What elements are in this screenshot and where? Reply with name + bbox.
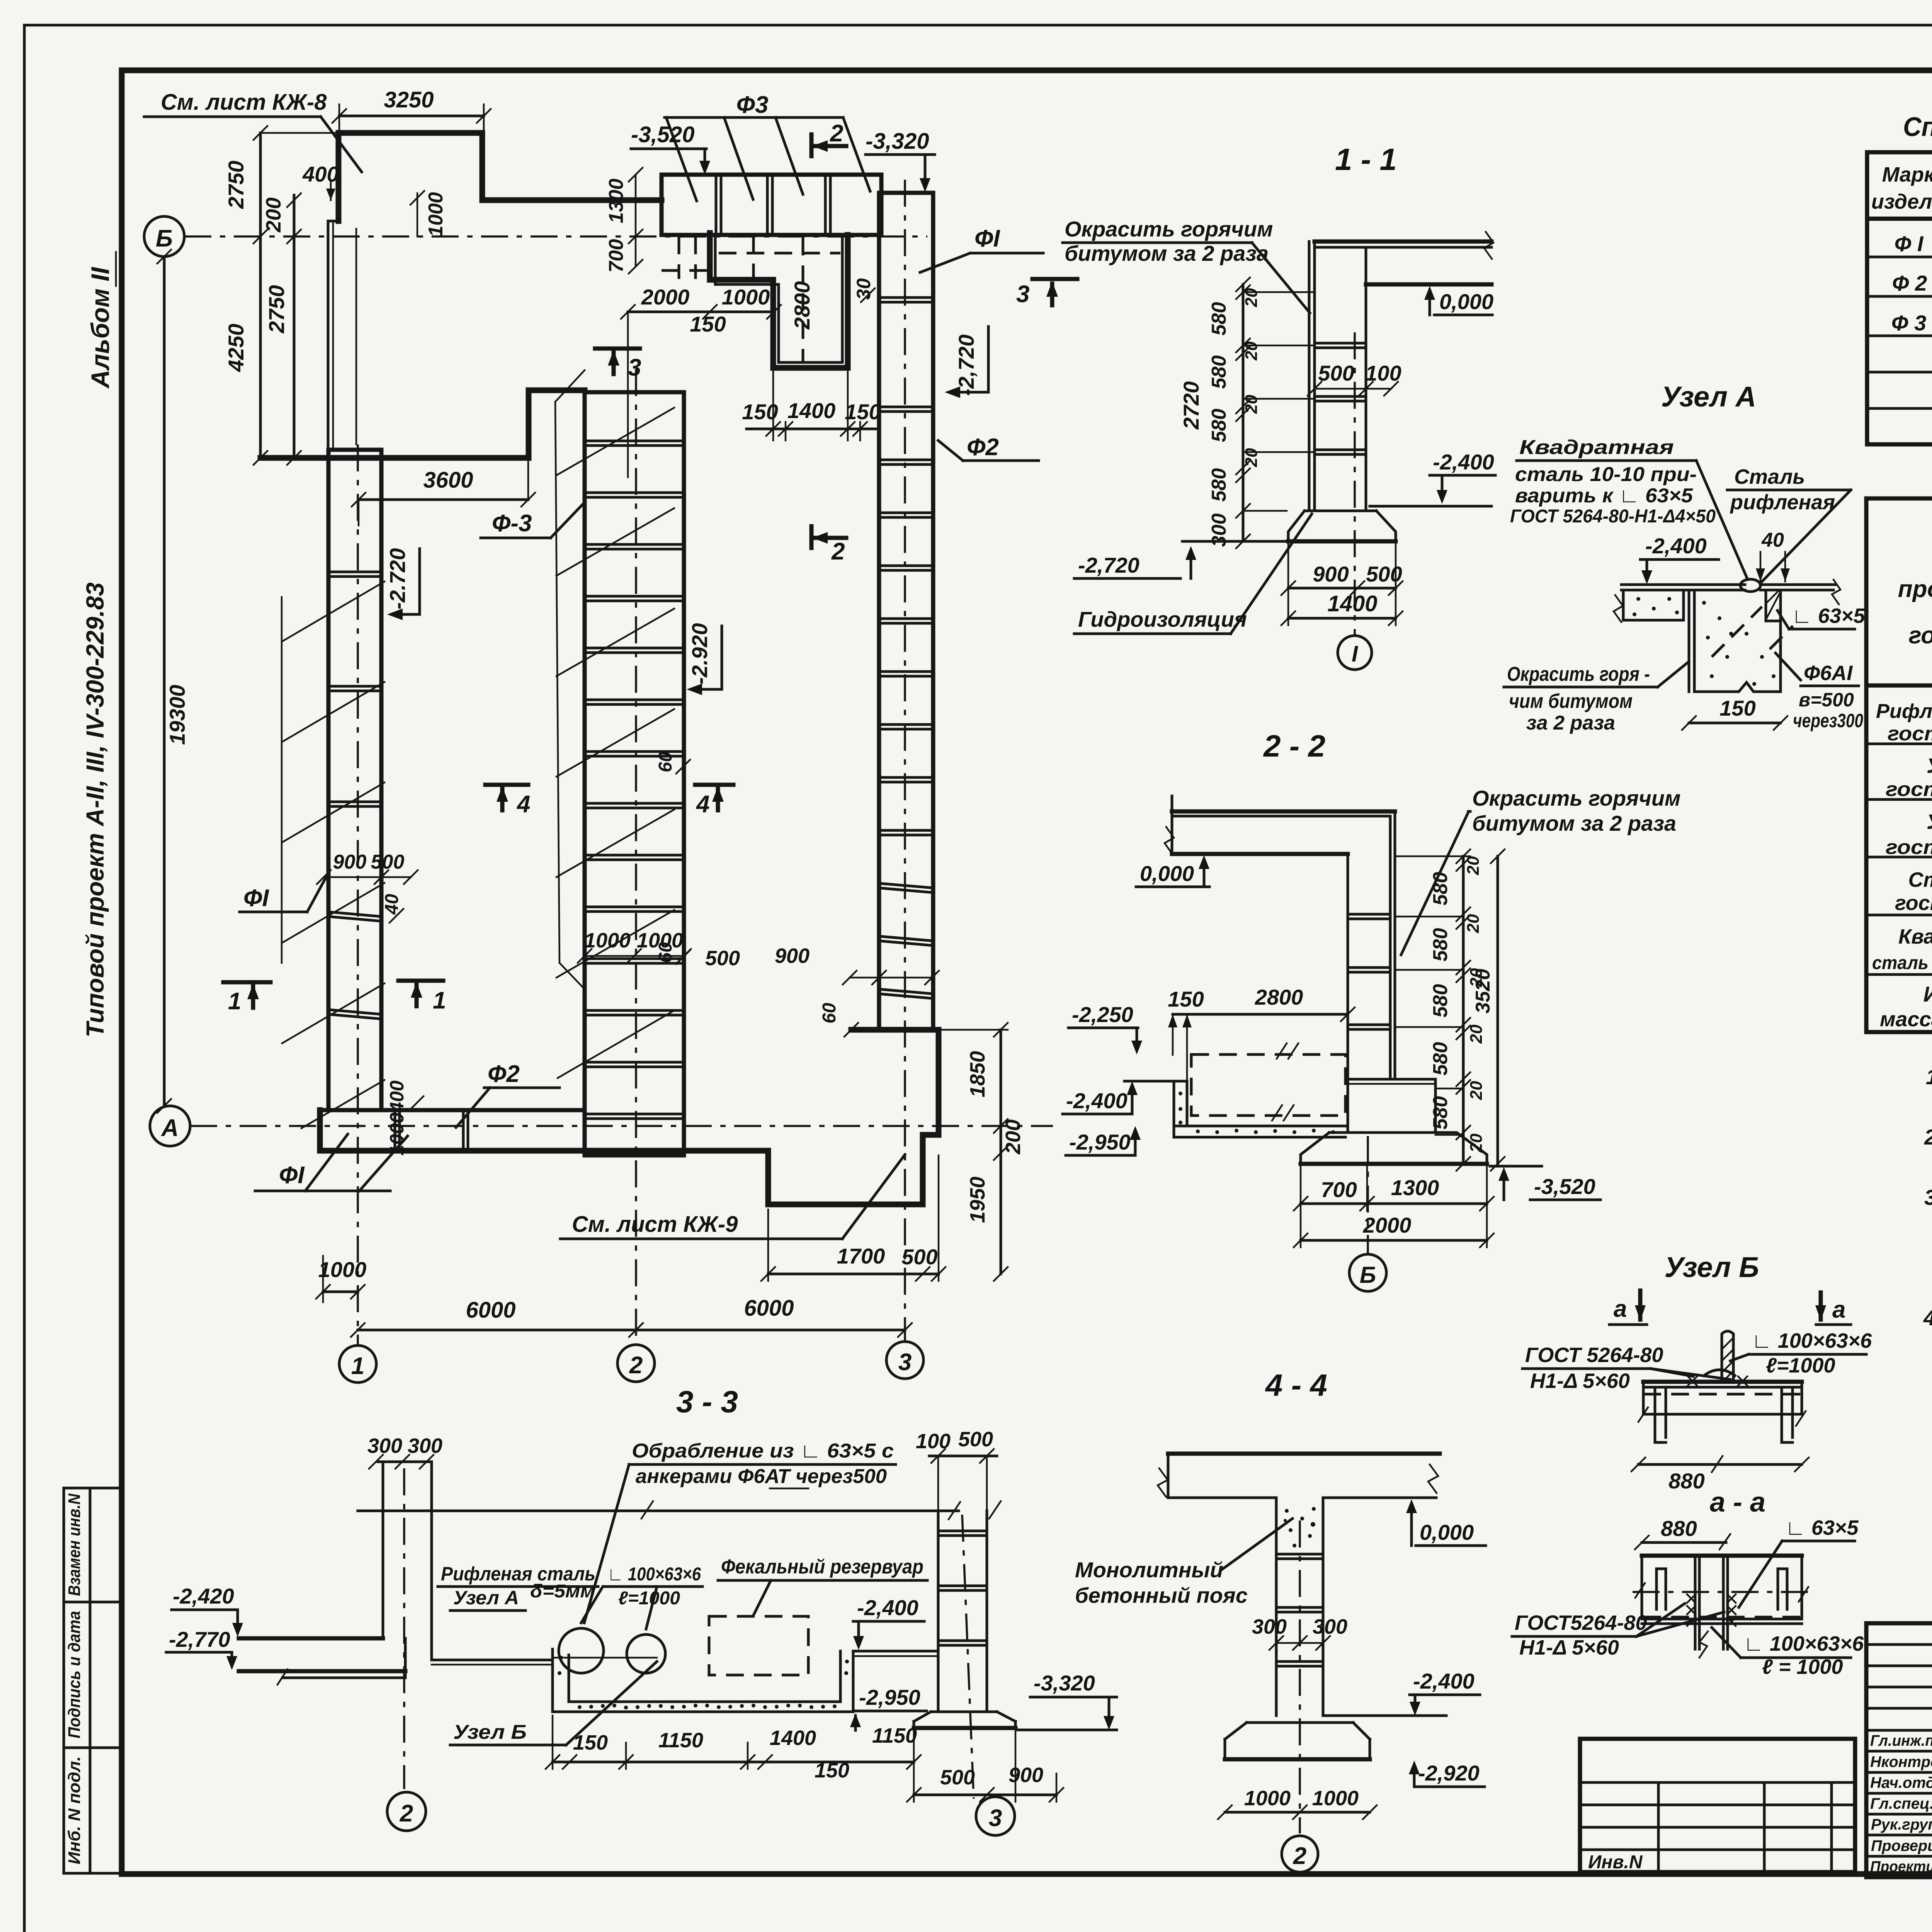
svg-text:Нконтрсс: Нконтрсс	[1870, 1753, 1932, 1770]
svg-text:Проектир.: Проектир.	[1870, 1858, 1932, 1875]
svg-text:гост 5781-82: гост 5781-82	[1895, 891, 1932, 915]
svg-text:150: 150	[1168, 987, 1204, 1011]
svg-text:Узел А: Узел А	[453, 1587, 519, 1609]
svg-text:580: 580	[1208, 468, 1230, 502]
dim 3250	[339, 115, 484, 117]
left dim chain 580/20	[1242, 284, 1245, 541]
center angles	[1694, 1556, 1697, 1649]
svg-text:сталь гост 2591-71*: сталь гост 2591-71*	[1872, 953, 1932, 973]
svg-text:-2,420: -2,420	[173, 1584, 234, 1608]
svg-text:Ф-3: Ф-3	[492, 510, 532, 537]
svg-text:Квадратная: Квадратная	[1519, 436, 1674, 459]
axis circles	[403, 1468, 405, 1789]
right dim chain 580/20 + 3520	[1462, 856, 1465, 1164]
svg-text:анкерами Ф6АТ через500: анкерами Ф6АТ через500	[636, 1465, 887, 1488]
svg-text:40: 40	[1761, 529, 1784, 551]
svg-text:1 - 1: 1 - 1	[1335, 142, 1397, 177]
weld spot	[1740, 579, 1760, 592]
svg-text:Рук.груп.: Рук.груп.	[1871, 1816, 1932, 1833]
svg-text:-2,400: -2,400	[1066, 1088, 1128, 1113]
svg-text:3520: 3520	[1472, 969, 1494, 1014]
svg-text:а: а	[1614, 1296, 1627, 1322]
svg-text:гост 8509-72*: гост 8509-72*	[1886, 778, 1932, 801]
svg-text:1400: 1400	[770, 1726, 816, 1750]
svg-text:Фекальный резервуар: Фекальный резервуар	[721, 1556, 923, 1578]
svg-text:2: 2	[629, 1352, 643, 1379]
svg-text:2: 2	[1293, 1843, 1306, 1869]
svg-text:2.: 2.	[1924, 1125, 1932, 1149]
column	[1275, 1498, 1278, 1716]
svg-text:20: 20	[1242, 395, 1261, 414]
svg-text:ФI: ФI	[243, 885, 269, 912]
svg-text:I: I	[1352, 641, 1359, 667]
axis lines	[184, 235, 927, 238]
svg-text:Ф 3: Ф 3	[1891, 311, 1926, 335]
auxiliary table bottom left of title block	[1580, 1739, 1855, 1872]
svg-text:битумом за 2 раза: битумом за 2 раза	[1472, 811, 1676, 835]
svg-text:60: 60	[819, 1003, 840, 1024]
svg-text:4: 4	[696, 791, 709, 818]
dims 150 1400 150	[747, 428, 877, 430]
svg-text:профиля и: профиля и	[1898, 576, 1932, 602]
svg-text:масса металла: масса металла	[1880, 1008, 1932, 1031]
svg-text:300: 300	[367, 1434, 402, 1458]
svg-text:1: 1	[433, 987, 446, 1014]
svg-text:2750: 2750	[264, 285, 289, 334]
svg-text:1: 1	[228, 988, 241, 1015]
svg-text:δ=5мм: δ=5мм	[530, 1581, 595, 1602]
svg-text:1000: 1000	[425, 192, 447, 237]
svg-text:ℓ=1000: ℓ=1000	[1766, 1354, 1835, 1377]
svg-text:580: 580	[1429, 984, 1452, 1018]
svg-text:20: 20	[1467, 1024, 1486, 1044]
svg-text:1400: 1400	[1327, 591, 1377, 616]
inner angles	[1656, 1569, 1666, 1609]
svg-text:ГОСТ 5264-80: ГОСТ 5264-80	[1525, 1344, 1663, 1367]
svg-text:∟ 100×63×6: ∟ 100×63×6	[1743, 1632, 1864, 1655]
svg-text:880: 880	[1668, 1469, 1704, 1493]
svg-text:500: 500	[705, 947, 740, 970]
svg-text:∟ 63×5: ∟ 63×5	[1785, 1516, 1859, 1539]
axis Б circle	[1367, 1136, 1369, 1254]
svg-text:200: 200	[1002, 1119, 1025, 1155]
monolithic belt dots	[1284, 1507, 1316, 1548]
svg-text:варить к ∟ 63×5: варить к ∟ 63×5	[1515, 485, 1693, 507]
left dim chains	[259, 133, 262, 458]
svg-text:900: 900	[1313, 562, 1349, 586]
wall and blocks	[1308, 241, 1311, 511]
svg-text:1400: 1400	[787, 398, 836, 423]
svg-text:Квадратная: Квадратная	[1898, 925, 1932, 948]
svg-text:20: 20	[1242, 288, 1261, 307]
svg-text:Альбом II: Альбом II	[86, 267, 114, 389]
svg-text:60: 60	[655, 752, 676, 772]
svg-text:580: 580	[1208, 302, 1230, 336]
axis circle 1	[1354, 332, 1356, 636]
svg-text:0,000: 0,000	[1420, 1520, 1474, 1544]
svg-text:400: 400	[302, 162, 338, 186]
concrete wall/floor	[1174, 1081, 1345, 1137]
plate	[1643, 1380, 1802, 1384]
svg-text:гост 8568-77*: гост 8568-77*	[1888, 723, 1932, 745]
svg-text:20: 20	[1242, 341, 1261, 361]
weld X marks	[1688, 1376, 1747, 1386]
Ф3 strip top right	[662, 175, 881, 235]
left margin stamp boxes	[64, 1488, 122, 1873]
svg-text:Ф3: Ф3	[736, 92, 769, 118]
svg-text:∟ 100×63×6: ∟ 100×63×6	[1752, 1329, 1872, 1352]
svg-text:700: 700	[1321, 1177, 1357, 1202]
svg-text:Уголок: Уголок	[1927, 810, 1932, 833]
svg-text:Окрасить горя -: Окрасить горя -	[1507, 663, 1650, 685]
svg-text:880: 880	[1661, 1516, 1697, 1541]
svg-text:а: а	[1832, 1296, 1845, 1323]
svg-text:1700: 1700	[837, 1244, 885, 1268]
svg-text:-2.720: -2.720	[385, 548, 410, 610]
svg-text:6000: 6000	[744, 1296, 794, 1321]
svg-text:580: 580	[1429, 928, 1452, 962]
right strip	[879, 193, 933, 1030]
bottom block + footing	[1348, 1079, 1435, 1133]
svg-text:19300: 19300	[165, 685, 189, 745]
svg-text:150: 150	[690, 312, 726, 336]
svg-text:Узел Б: Узел Б	[1664, 1251, 1759, 1283]
svg-text:1.: 1.	[1926, 1065, 1932, 1089]
svg-text:Стержень: Стержень	[1908, 868, 1932, 891]
svg-text:4 - 4: 4 - 4	[1265, 1368, 1327, 1402]
reservoir dashed	[1191, 1054, 1345, 1116]
svg-text:500: 500	[901, 1245, 937, 1269]
svg-text:3: 3	[989, 1805, 1002, 1832]
svg-text:20: 20	[1464, 856, 1483, 875]
pit (fecal reservoir) in plan	[710, 233, 848, 368]
step to pit, ledge	[430, 1638, 433, 1660]
svg-text:0,000: 0,000	[1140, 861, 1194, 886]
svg-text:580: 580	[1208, 409, 1230, 442]
svg-text:580: 580	[1208, 355, 1230, 389]
svg-text:700: 700	[605, 239, 628, 273]
svg-text:См. лист КЖ-9: См. лист КЖ-9	[572, 1212, 738, 1237]
svg-text:30: 30	[853, 278, 874, 300]
svg-text:1300: 1300	[605, 179, 628, 223]
wall	[1347, 854, 1349, 1079]
left slab concrete	[1623, 590, 1684, 620]
axis circles	[144, 216, 184, 257]
svg-text:1150: 1150	[658, 1729, 703, 1752]
svg-text:1000: 1000	[318, 1257, 367, 1282]
svg-text:4.: 4.	[1923, 1306, 1932, 1330]
svg-text:ФI: ФI	[975, 225, 1000, 252]
svg-text:2: 2	[831, 538, 845, 565]
svg-text:2: 2	[830, 120, 843, 147]
svg-text:Уголок: Уголок	[1927, 754, 1932, 777]
vertical angle hatched	[1722, 1331, 1733, 1382]
svg-text:100: 100	[1365, 361, 1401, 385]
svg-text:20: 20	[1242, 448, 1261, 467]
svg-text:900: 900	[1009, 1764, 1043, 1787]
svg-text:1000: 1000	[722, 285, 770, 309]
svg-text:-2,400: -2,400	[1433, 450, 1494, 474]
svg-text:чим битумом: чим битумом	[1509, 690, 1633, 713]
pit concrete U	[553, 1649, 853, 1712]
svg-text:3: 3	[628, 354, 641, 381]
svg-text:40: 40	[382, 894, 402, 915]
svg-text:150: 150	[573, 1731, 608, 1754]
svg-text:Гл.инж.пр.: Гл.инж.пр.	[1870, 1732, 1932, 1749]
middle strip	[585, 392, 684, 1155]
svg-text:Узел Б: Узел Б	[453, 1721, 527, 1743]
svg-text:200: 200	[262, 197, 285, 233]
left wall	[382, 1464, 384, 1638]
concrete dots	[1633, 597, 1776, 686]
svg-text:2000: 2000	[641, 285, 690, 309]
svg-text:2 - 2: 2 - 2	[1263, 729, 1325, 763]
svg-text:1850: 1850	[966, 1051, 989, 1097]
svg-text:Ф 2: Ф 2	[1892, 271, 1927, 295]
svg-text:3: 3	[898, 1349, 912, 1376]
svg-text:-2,720: -2,720	[1078, 553, 1139, 577]
svg-text:битумом за 2 раза: битумом за 2 раза	[1065, 241, 1269, 265]
svg-text:20: 20	[1467, 1133, 1486, 1153]
floors left	[239, 1636, 383, 1641]
svg-text:20: 20	[1464, 914, 1483, 933]
svg-text:Инв.N: Инв.N	[1588, 1852, 1643, 1872]
svg-text:4250: 4250	[224, 324, 248, 372]
svg-text:изделия: изделия	[1871, 190, 1932, 213]
svg-text:См. лист КЖ-8: См. лист КЖ-8	[161, 90, 327, 115]
svg-text:ГОСТ5264-80: ГОСТ5264-80	[1515, 1611, 1647, 1634]
main concrete block	[1689, 590, 1781, 692]
svg-text:1000: 1000	[637, 929, 683, 952]
bottom outline thick	[320, 1030, 939, 1204]
svg-text:Гидроизоляция: Гидроизоляция	[1078, 607, 1247, 631]
footing	[1288, 511, 1396, 541]
svg-text:Н1-Δ 5×60: Н1-Δ 5×60	[1519, 1636, 1619, 1659]
svg-text:-2.920: -2.920	[687, 623, 712, 685]
svg-text:Ф I: Ф I	[1895, 231, 1924, 256]
svg-text:3600: 3600	[423, 468, 473, 493]
anchor dashes	[1712, 607, 1762, 657]
svg-text:3: 3	[1016, 281, 1029, 308]
svg-text:150: 150	[815, 1759, 849, 1782]
svg-text:1: 1	[351, 1353, 364, 1379]
svg-text:Н1-Δ 5×60: Н1-Δ 5×60	[1530, 1369, 1630, 1393]
svg-text:3 - 3: 3 - 3	[676, 1384, 738, 1419]
svg-text:Проверил: Проверил	[1871, 1837, 1932, 1854]
svg-text:2: 2	[400, 1800, 413, 1827]
svg-text:Б: Б	[156, 225, 173, 252]
svg-text:за 2 раза: за 2 раза	[1526, 712, 1615, 734]
bottom dim chain	[553, 1761, 914, 1764]
svg-text:ℓ = 1000: ℓ = 1000	[1762, 1655, 1843, 1679]
svg-text:2720: 2720	[1179, 381, 1203, 430]
svg-text:1000: 1000	[1244, 1787, 1291, 1810]
svg-text:300: 300	[408, 1434, 442, 1458]
svg-text:ℓ=1000: ℓ=1000	[618, 1588, 680, 1609]
3600 dim	[359, 498, 528, 501]
svg-text:Ф6АI: Ф6АI	[1804, 662, 1853, 685]
svg-text:300: 300	[1252, 1615, 1287, 1638]
svg-text:1300: 1300	[1391, 1175, 1439, 1200]
svg-text:1950: 1950	[966, 1177, 989, 1223]
svg-text:500: 500	[1366, 562, 1402, 586]
svg-text:ГОСТ 5264-80-Н1-Δ4×50: ГОСТ 5264-80-Н1-Δ4×50	[1510, 506, 1716, 527]
svg-text:Окрасить горячим: Окрасить горячим	[1065, 217, 1273, 241]
svg-text:900: 900	[333, 851, 367, 873]
svg-text:900: 900	[775, 944, 810, 968]
bottom thick line of upper area	[260, 455, 529, 461]
axis 2	[1299, 1520, 1301, 1833]
svg-text:Подпись и дата: Подпись и дата	[65, 1611, 84, 1738]
top cut line	[358, 1510, 959, 1512]
svg-text:1000: 1000	[1312, 1787, 1359, 1810]
19300 dim	[163, 257, 166, 1106]
svg-text:-2,770: -2,770	[169, 1627, 230, 1651]
svg-text:20: 20	[1467, 1081, 1486, 1100]
section mark 3 left	[595, 347, 640, 351]
svg-text:500: 500	[940, 1766, 975, 1789]
svg-text:Рифленая сталь: Рифленая сталь	[1876, 700, 1932, 723]
section marks 4	[485, 783, 528, 787]
svg-text:рифленая: рифленая	[1730, 491, 1835, 514]
svg-text:сталь 10-10 при-: сталь 10-10 при-	[1515, 463, 1697, 486]
svg-text:-3,320: -3,320	[866, 129, 929, 154]
svg-text:-2,400: -2,400	[1413, 1669, 1475, 1693]
svg-text:∟ 100×63×6: ∟ 100×63×6	[607, 1564, 701, 1585]
svg-text:6000: 6000	[466, 1298, 515, 1323]
left strip	[328, 450, 381, 1110]
svg-text:Ф2: Ф2	[488, 1061, 520, 1087]
reservoir dashed	[709, 1616, 808, 1675]
svg-text:-2,920: -2,920	[1418, 1761, 1480, 1785]
body	[1642, 1556, 1802, 1619]
880 dim	[1638, 1463, 1802, 1466]
svg-text:-3,520: -3,520	[631, 122, 694, 147]
footing	[914, 1712, 1015, 1728]
svg-text:-3,520: -3,520	[1534, 1174, 1595, 1199]
footing	[1225, 1723, 1370, 1759]
svg-text:3250: 3250	[384, 87, 434, 112]
svg-text:через300: через300	[1793, 710, 1863, 731]
svg-text:∟ 63×5: ∟ 63×5	[1792, 604, 1865, 628]
left strip hatch band	[281, 597, 283, 963]
svg-text:2800: 2800	[790, 281, 814, 330]
svg-text:3.: 3.	[1924, 1185, 1932, 1209]
svg-text:4: 4	[516, 791, 530, 818]
bottom block row	[320, 1110, 585, 1151]
right vertical dim chain 1850 200 1950	[1000, 1030, 1002, 1274]
svg-text:-2,720: -2,720	[954, 335, 978, 396]
svg-text:Итого:: Итого:	[1923, 982, 1932, 1006]
svg-text:150: 150	[1719, 696, 1755, 720]
floor slab lines	[1621, 583, 1745, 586]
weld X	[1687, 1594, 1696, 1626]
hidden pit lines under Ф3 strip	[678, 236, 680, 279]
svg-text:150: 150	[742, 400, 778, 424]
middle strip hatch band	[555, 402, 560, 963]
top outline	[341, 133, 662, 200]
svg-text:ФI: ФI	[279, 1162, 305, 1189]
svg-text:-2,250: -2,250	[1072, 1002, 1133, 1027]
svg-text:А: А	[161, 1115, 179, 1141]
right column	[937, 1511, 940, 1712]
hanging angles	[1655, 1387, 1666, 1442]
svg-text:Сталь: Сталь	[1734, 465, 1805, 488]
svg-text:Типовой проект А-II, III, IV-: Типовой проект А-II, III, IV-300-229.83	[81, 582, 109, 1037]
svg-text:500: 500	[1318, 361, 1354, 385]
svg-text:2750: 2750	[224, 161, 248, 209]
svg-text:гост, ту: гост, ту	[1909, 622, 1932, 649]
svg-text:Б: Б	[1360, 1262, 1376, 1288]
svg-text:Монолитный: Монолитный	[1075, 1558, 1223, 1582]
svg-text:Нач.отд.: Нач.отд.	[1870, 1774, 1932, 1791]
svg-text:580: 580	[1429, 1042, 1452, 1076]
svg-text:а - а: а - а	[1710, 1487, 1765, 1518]
svg-text:Спецификация элементов к схеме: Спецификация элементов к схеме расположе…	[1903, 112, 1932, 142]
svg-text:-2,400: -2,400	[1645, 534, 1707, 558]
dims 2000 1000 150	[628, 311, 774, 313]
svg-text:Ф2: Ф2	[967, 434, 999, 461]
steel plate at -2,420	[553, 1657, 657, 1659]
svg-text:2000: 2000	[1363, 1213, 1412, 1237]
svg-text:1150: 1150	[872, 1724, 917, 1747]
svg-text:Гл.спец.: Гл.спец.	[1870, 1795, 1932, 1812]
svg-text:Взамен инв.N: Взамен инв.N	[65, 1493, 84, 1596]
right ledge	[853, 1650, 938, 1653]
svg-text:580: 580	[1429, 1096, 1452, 1130]
svg-text:0,000: 0,000	[1439, 289, 1493, 314]
angle hatched	[1766, 590, 1781, 621]
svg-text:-2,950: -2,950	[1069, 1130, 1131, 1154]
svg-text:Окрасить горячим: Окрасить горячим	[1472, 786, 1680, 810]
svg-text:гост 8510-72*: гост 8510-72*	[1886, 836, 1932, 859]
svg-text:Инб. N подл.: Инб. N подл.	[65, 1756, 84, 1864]
svg-text:500: 500	[958, 1428, 993, 1451]
svg-text:-2,400: -2,400	[857, 1595, 918, 1620]
svg-text:400: 400	[386, 1080, 408, 1113]
svg-text:-3,320: -3,320	[1034, 1671, 1095, 1695]
svg-text:2800: 2800	[1255, 985, 1303, 1009]
svg-text:Обрабление из ∟ 63×5 с: Обрабление из ∟ 63×5 с	[632, 1440, 894, 1462]
svg-text:Узел А: Узел А	[1661, 381, 1756, 413]
svg-text:-2,950: -2,950	[859, 1685, 920, 1709]
detail circles	[559, 1628, 604, 1673]
svg-text:Марка: Марка	[1882, 163, 1932, 186]
svg-text:бетонный пояс: бетонный пояс	[1075, 1583, 1248, 1607]
svg-text:150: 150	[845, 400, 881, 424]
svg-text:в=500: в=500	[1799, 689, 1854, 711]
